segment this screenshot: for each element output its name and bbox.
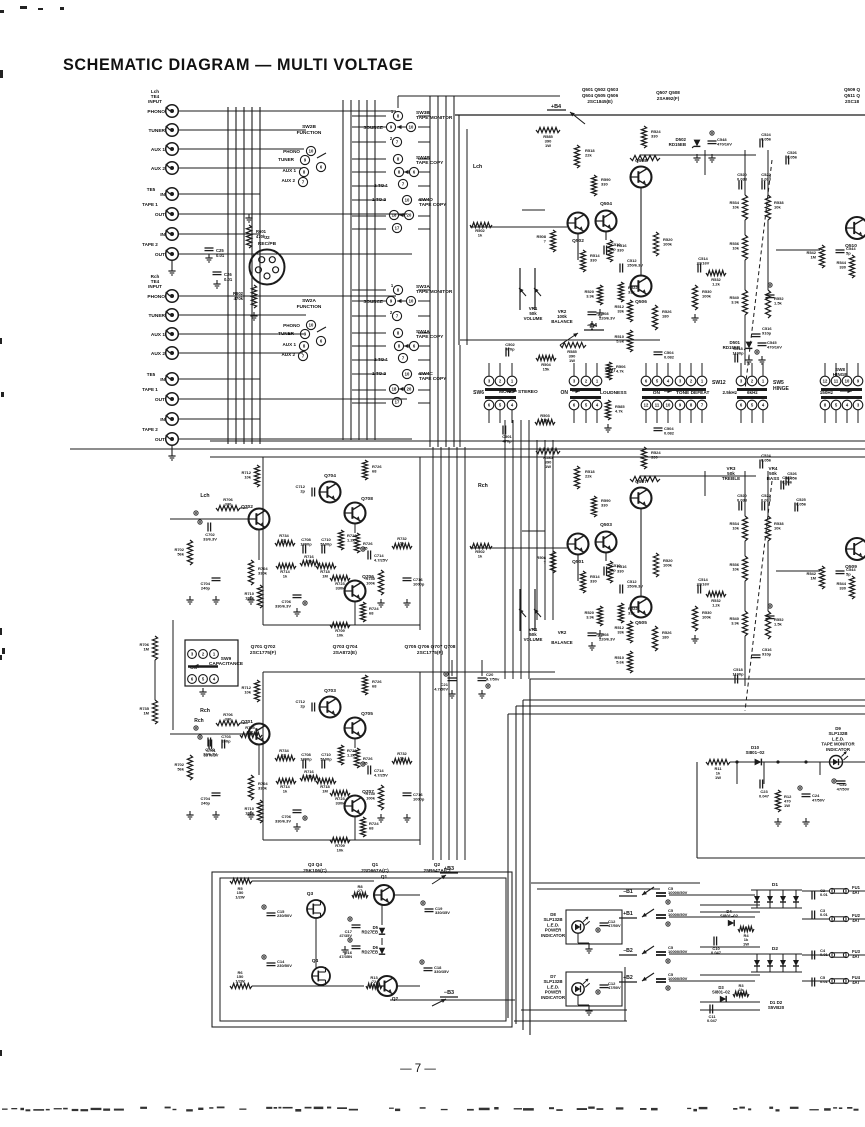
svg-text:1800p: 1800p <box>300 756 312 761</box>
svg-text:5.6k: 5.6k <box>616 659 625 664</box>
svg-text:0.056: 0.056 <box>761 457 772 462</box>
svg-text:Rch: Rch <box>194 718 203 724</box>
svg-text:1k: 1k <box>282 752 287 757</box>
svg-text:TAPE 1: TAPE 1 <box>142 202 158 207</box>
svg-text:TUNER: TUNER <box>278 157 295 162</box>
svg-text:0.047: 0.047 <box>711 950 722 955</box>
svg-text:FUNCTION: FUNCTION <box>297 130 322 136</box>
svg-text:1800p: 1800p <box>300 541 312 546</box>
svg-text:1W: 1W <box>569 358 575 363</box>
svg-text:TUNER: TUNER <box>278 331 295 336</box>
svg-text:330: 330 <box>601 181 608 186</box>
svg-text:TAPE 2: TAPE 2 <box>142 427 158 432</box>
svg-text:AUX 2: AUX 2 <box>151 351 165 357</box>
svg-text:5100p: 5100p <box>320 756 332 761</box>
svg-text:AUX 1: AUX 1 <box>282 168 296 173</box>
svg-text:330: 330 <box>225 501 232 506</box>
svg-text:470k: 470k <box>256 234 266 239</box>
svg-text:15k: 15k <box>542 417 549 422</box>
svg-text:Q701 Q702: Q701 Q702 <box>251 644 276 650</box>
svg-text:IN: IN <box>160 192 165 198</box>
svg-text:22/16V: 22/16V <box>697 581 710 586</box>
svg-text:330: 330 <box>590 257 597 262</box>
svg-text:47/50V: 47/50V <box>608 923 621 928</box>
svg-text:OUT: OUT <box>155 397 165 403</box>
svg-text:10: 10 <box>845 379 850 384</box>
svg-text:TAPE COPY: TAPE COPY <box>419 376 447 382</box>
svg-text:1k: 1k <box>282 537 287 542</box>
svg-text:IN: IN <box>160 377 165 383</box>
svg-text:2SA992(F): 2SA992(F) <box>657 96 680 101</box>
svg-text:4.7k: 4.7k <box>616 368 625 373</box>
svg-text:47/50V: 47/50V <box>608 985 621 990</box>
svg-text:REC/PB: REC/PB <box>258 241 277 247</box>
svg-text:OUT: OUT <box>155 437 165 443</box>
svg-text:2p: 2p <box>300 488 305 493</box>
svg-text:0.033: 0.033 <box>737 497 748 502</box>
svg-text:ON: ON <box>561 390 569 396</box>
svg-text:10k: 10k <box>732 525 739 530</box>
svg-text:1M: 1M <box>810 254 816 259</box>
svg-text:20: 20 <box>407 387 412 392</box>
svg-text:TAPE COPY: TAPE COPY <box>419 202 447 208</box>
svg-text:180: 180 <box>662 313 669 318</box>
svg-text:2.5kHz: 2.5kHz <box>722 390 737 395</box>
svg-text:0.033: 0.033 <box>737 176 748 181</box>
svg-text:240p: 240p <box>201 585 211 590</box>
svg-text:470p: 470p <box>502 438 512 443</box>
svg-text:10k: 10k <box>732 566 739 571</box>
svg-text:PHONO: PHONO <box>147 109 165 115</box>
svg-text:10000/50V: 10000/50V <box>668 912 688 917</box>
svg-text:3.9k: 3.9k <box>586 614 595 619</box>
svg-text:330: 330 <box>601 502 608 507</box>
svg-text:910p: 910p <box>762 330 772 335</box>
svg-text:Q504 Q505 Q506: Q504 Q505 Q506 <box>582 93 619 98</box>
svg-text:VR2: VR2 <box>558 630 567 635</box>
svg-text:1W: 1W <box>743 941 749 946</box>
svg-text:1k: 1k <box>283 573 288 578</box>
svg-text:BALANCE: BALANCE <box>551 640 573 645</box>
svg-text:LOUDNESS: LOUDNESS <box>600 390 627 396</box>
svg-text:10: 10 <box>309 149 314 154</box>
svg-text:INPUT: INPUT <box>148 99 162 104</box>
svg-text:180: 180 <box>662 634 669 639</box>
svg-text:1/2W: 1/2W <box>235 894 245 899</box>
svg-text:230/50V: 230/50V <box>277 913 292 918</box>
svg-text:6kHz: 6kHz <box>747 390 758 395</box>
svg-text:4.7/25V: 4.7/25V <box>374 557 388 562</box>
svg-text:Q501 Q502 Q503: Q501 Q502 Q503 <box>582 87 619 92</box>
svg-text:15k: 15k <box>543 366 550 371</box>
svg-text:Q506: Q506 <box>635 299 647 305</box>
svg-text:1W: 1W <box>784 803 790 808</box>
svg-text:2SC1845(E): 2SC1845(E) <box>587 99 613 104</box>
svg-text:PHONO: PHONO <box>283 149 300 154</box>
svg-text:10k: 10k <box>732 245 739 250</box>
svg-text:OUT: OUT <box>155 212 165 218</box>
svg-text:17: 17 <box>395 226 400 231</box>
svg-text:10k: 10k <box>244 689 251 694</box>
svg-text:11: 11 <box>655 403 660 408</box>
svg-text:−B2: −B2 <box>623 948 633 954</box>
svg-text:1k: 1k <box>478 553 483 558</box>
svg-text:10k: 10k <box>337 847 344 852</box>
svg-text:HINGE: HINGE <box>773 386 790 392</box>
svg-text:330: 330 <box>617 568 624 573</box>
svg-text:5100p: 5100p <box>320 541 332 546</box>
svg-text:1W: 1W <box>545 143 551 148</box>
svg-text:10: 10 <box>405 372 410 377</box>
svg-text:17: 17 <box>395 400 400 405</box>
svg-text:72: 72 <box>372 979 377 984</box>
svg-text:100k: 100k <box>702 614 712 619</box>
svg-text:Rch: Rch <box>478 483 488 489</box>
svg-text:47/35N: 47/35N <box>339 954 352 959</box>
svg-text:Q708: Q708 <box>361 496 373 502</box>
svg-text:10k: 10k <box>337 632 344 637</box>
svg-text:910p: 910p <box>762 651 772 656</box>
svg-text:2p: 2p <box>300 703 305 708</box>
svg-text:INDICATOR: INDICATOR <box>541 995 566 1000</box>
svg-text:1/2W: 1/2W <box>235 978 245 983</box>
svg-text:2SD667A(C): 2SD667A(C) <box>361 868 389 874</box>
svg-text:1.2k: 1.2k <box>712 281 721 286</box>
svg-text:D2: D2 <box>772 946 778 952</box>
svg-text:1k: 1k <box>400 540 405 545</box>
svg-text:IN: IN <box>160 232 165 238</box>
svg-text:AUX 1: AUX 1 <box>282 342 296 347</box>
svg-text:+B3: +B3 <box>444 866 454 872</box>
svg-text:HINGE: HINGE <box>833 372 848 377</box>
svg-text:330: 330 <box>225 716 232 721</box>
svg-text:3.9k: 3.9k <box>586 293 595 298</box>
svg-text:Q509: Q509 <box>845 564 857 570</box>
svg-text:330: 330 <box>590 578 597 583</box>
svg-text:330: 330 <box>651 133 658 138</box>
svg-text:+B4: +B4 <box>551 104 562 110</box>
svg-text:3.9k: 3.9k <box>731 620 740 625</box>
svg-text:— 7 —: — 7 — <box>400 1063 436 1075</box>
svg-text:47k: 47k <box>306 773 313 778</box>
svg-text:100k: 100k <box>663 241 673 246</box>
svg-text:ON: ON <box>653 390 661 396</box>
svg-text:−B4: −B4 <box>587 323 598 329</box>
svg-text:25K106(C): 25K106(C) <box>303 868 327 874</box>
svg-text:PHONO: PHONO <box>283 323 300 328</box>
svg-text:47/50V: 47/50V <box>812 797 825 802</box>
svg-text:47/50V: 47/50V <box>837 786 850 791</box>
svg-text:5p: 5p <box>846 250 851 255</box>
svg-text:1100p: 1100p <box>732 350 744 355</box>
svg-text:SCHEMATIC DIAGRAM — MULTI VOLT: SCHEMATIC DIAGRAM — MULTI VOLTAGE <box>63 56 413 74</box>
svg-text:S5VB20: S5VB20 <box>768 1005 785 1010</box>
svg-text:Lch: Lch <box>200 493 209 499</box>
svg-text:Q1: Q1 <box>381 874 388 880</box>
svg-text:0.047: 0.047 <box>759 793 770 798</box>
svg-text:33/6.3V: 33/6.3V <box>203 536 217 541</box>
svg-text:10: 10 <box>405 198 410 203</box>
svg-text:330: 330 <box>839 585 846 590</box>
svg-text:33k: 33k <box>617 308 624 313</box>
svg-text:TUNER: TUNER <box>148 313 165 319</box>
svg-text:330/35V: 330/35V <box>435 910 450 915</box>
svg-text:100k: 100k <box>366 795 376 800</box>
svg-text:10k: 10k <box>774 525 781 530</box>
svg-text:SI801–02: SI801–02 <box>720 914 739 919</box>
svg-text:D1: D1 <box>772 882 778 888</box>
svg-text:470k: 470k <box>234 296 244 301</box>
svg-text:Q2: Q2 <box>392 996 399 1002</box>
svg-text:1W: 1W <box>545 464 551 469</box>
svg-text:Q505: Q505 <box>635 620 647 626</box>
svg-text:150Hz: 150Hz <box>820 390 834 395</box>
svg-text:10k: 10k <box>244 474 251 479</box>
svg-text:INDICATOR: INDICATOR <box>826 747 851 752</box>
svg-text:33k: 33k <box>617 629 624 634</box>
svg-text:330: 330 <box>617 247 624 252</box>
svg-text:1k: 1k <box>283 788 288 793</box>
svg-text:1000p: 1000p <box>413 581 425 586</box>
svg-text:0.01: 0.01 <box>820 979 829 984</box>
svg-text:1M: 1M <box>322 573 328 578</box>
svg-text:SW6: SW6 <box>473 390 484 396</box>
svg-text:180k: 180k <box>245 810 255 815</box>
svg-text:330: 330 <box>839 264 846 269</box>
svg-text:Q1: Q1 <box>372 862 379 868</box>
svg-text:33 /6.3V: 33 /6.3V <box>204 752 219 757</box>
svg-text:1k: 1k <box>400 755 405 760</box>
svg-text:22/16V: 22/16V <box>697 260 710 265</box>
svg-text:10: 10 <box>309 323 314 328</box>
svg-text:100k: 100k <box>702 293 712 298</box>
svg-text:330/35V: 330/35V <box>434 969 449 974</box>
svg-text:5p: 5p <box>611 567 616 572</box>
svg-text:0.056: 0.056 <box>782 479 793 484</box>
svg-text:SW2A: SW2A <box>302 298 316 304</box>
svg-text:5p: 5p <box>846 571 851 576</box>
svg-text:1M: 1M <box>322 788 328 793</box>
svg-text:100k: 100k <box>663 562 673 567</box>
svg-text:10: 10 <box>409 125 414 130</box>
svg-text:1000p: 1000p <box>413 796 425 801</box>
svg-text:68: 68 <box>372 468 377 473</box>
svg-text:Q705: Q705 <box>361 711 373 717</box>
svg-text:330k: 330k <box>336 800 346 805</box>
svg-text:4.7/50v: 4.7/50v <box>486 676 500 681</box>
svg-text:240p: 240p <box>221 738 231 743</box>
svg-text:Q503: Q503 <box>600 522 612 528</box>
svg-text:AUX 1: AUX 1 <box>151 147 165 153</box>
svg-text:10: 10 <box>409 299 414 304</box>
svg-text:240p: 240p <box>201 800 211 805</box>
svg-text:12: 12 <box>823 379 828 384</box>
svg-text:Q509 Q: Q509 Q <box>844 87 861 92</box>
svg-text:TUNER: TUNER <box>148 128 165 134</box>
svg-text:22k: 22k <box>585 152 592 157</box>
svg-text:Q511 Q: Q511 Q <box>844 93 860 98</box>
svg-text:10k: 10k <box>732 204 739 209</box>
svg-text:Q703 Q704: Q703 Q704 <box>333 644 358 650</box>
svg-text:AUX 2: AUX 2 <box>281 178 295 183</box>
svg-text:56k: 56k <box>177 766 184 771</box>
svg-text:0.01: 0.01 <box>216 253 225 258</box>
svg-text:SI801–02: SI801–02 <box>746 750 765 755</box>
svg-text:10000/50V: 10000/50V <box>668 976 688 981</box>
svg-text:22k: 22k <box>585 473 592 478</box>
svg-text:20: 20 <box>407 213 412 218</box>
svg-text:330k: 330k <box>336 585 346 590</box>
svg-text:CAPACITANCE: CAPACITANCE <box>209 661 244 667</box>
svg-text:1W: 1W <box>738 991 744 996</box>
svg-text:11: 11 <box>834 379 839 384</box>
svg-text:TREBLE: TREBLE <box>722 476 740 481</box>
svg-text:100k: 100k <box>366 580 376 585</box>
svg-text:15: 15 <box>363 545 368 550</box>
svg-text:FUNCTION: FUNCTION <box>297 304 322 310</box>
svg-text:Lch: Lch <box>473 164 482 170</box>
svg-text:Q705 Q706 Q707 Q708: Q705 Q706 Q707 Q708 <box>405 644 456 650</box>
svg-text:SW12: SW12 <box>712 380 726 386</box>
svg-text:0.082: 0.082 <box>664 354 675 359</box>
svg-text:12: 12 <box>644 403 649 408</box>
svg-text:470/16V: 470/16V <box>717 141 732 146</box>
svg-text:220/6.3V: 220/6.3V <box>599 315 615 320</box>
svg-text:0.01: 0.01 <box>820 892 829 897</box>
svg-text:2SC1775(F): 2SC1775(F) <box>250 650 277 656</box>
svg-text:33k: 33k <box>628 610 635 615</box>
svg-text:Q703: Q703 <box>324 688 336 694</box>
svg-text:Q3 Q4: Q3 Q4 <box>308 862 322 868</box>
svg-text:47k: 47k <box>306 558 313 563</box>
svg-text:Q504: Q504 <box>600 201 612 207</box>
svg-text:RD27EB: RD27EB <box>361 950 378 955</box>
svg-text:VOLUME: VOLUME <box>524 316 543 321</box>
svg-text:230/50V: 230/50V <box>277 963 292 968</box>
svg-text:27: 27 <box>358 888 363 893</box>
svg-text:AUX 2: AUX 2 <box>151 166 165 172</box>
svg-text:220/6.3V: 220/6.3V <box>599 636 615 641</box>
svg-text:1.5k: 1.5k <box>774 621 783 626</box>
svg-text:68: 68 <box>372 683 377 688</box>
svg-text:AUX 2: AUX 2 <box>281 352 295 357</box>
svg-text:BASS: BASS <box>767 476 780 481</box>
svg-text:10000/50V: 10000/50V <box>668 890 688 895</box>
svg-text:Rch: Rch <box>200 708 210 714</box>
svg-text:4.7k: 4.7k <box>615 408 624 413</box>
svg-text:10: 10 <box>666 403 671 408</box>
svg-text:470/16V: 470/16V <box>767 344 782 349</box>
svg-text:330: 330 <box>247 729 254 734</box>
svg-text:SW2B: SW2B <box>302 124 316 130</box>
svg-text:0.056: 0.056 <box>796 501 807 506</box>
svg-text:RD15EB: RD15EB <box>669 142 686 147</box>
svg-text:1.2k: 1.2k <box>712 602 721 607</box>
svg-text:0.01: 0.01 <box>820 912 829 917</box>
svg-text:330/6.3V: 330/6.3V <box>275 603 291 608</box>
svg-text:5p: 5p <box>611 246 616 251</box>
svg-text:10k: 10k <box>774 204 781 209</box>
svg-text:−B3: −B3 <box>444 990 454 996</box>
svg-text:0.01: 0.01 <box>224 277 233 282</box>
svg-text:Q510: Q510 <box>845 243 857 249</box>
svg-text:10000/50V: 10000/50V <box>668 949 688 954</box>
svg-text:68: 68 <box>369 610 374 615</box>
svg-text:18: 18 <box>392 387 397 392</box>
svg-text:+B1: +B1 <box>623 911 633 917</box>
svg-text:+B2: +B2 <box>623 975 633 981</box>
svg-text:Q702: Q702 <box>241 504 253 510</box>
svg-text:0.082: 0.082 <box>664 430 675 435</box>
svg-text:5.6k: 5.6k <box>616 338 625 343</box>
svg-text:VOLUME: VOLUME <box>524 637 543 642</box>
svg-text:TAPE 1: TAPE 1 <box>142 387 158 392</box>
svg-text:Q507 Q508: Q507 Q508 <box>656 90 680 95</box>
svg-text:1.5k: 1.5k <box>774 300 783 305</box>
svg-text:Q4: Q4 <box>312 958 319 964</box>
svg-text:4.7/25V: 4.7/25V <box>374 772 388 777</box>
svg-text:TONE DEFEAT: TONE DEFEAT <box>676 390 709 396</box>
svg-text:15: 15 <box>363 760 368 765</box>
svg-text:BALANCE: BALANCE <box>551 319 573 324</box>
svg-text:18: 18 <box>392 213 397 218</box>
svg-text:PHONO: PHONO <box>147 294 165 300</box>
svg-text:RD27EB: RD27EB <box>361 930 378 935</box>
svg-text:INPUT: INPUT <box>148 284 162 289</box>
svg-text:MONO: MONO <box>499 389 514 395</box>
svg-text:33k: 33k <box>628 289 635 294</box>
svg-text:1k: 1k <box>478 232 483 237</box>
svg-text:1100p: 1100p <box>732 671 744 676</box>
svg-text:−B1: −B1 <box>623 889 633 895</box>
svg-text:3.9k: 3.9k <box>731 299 740 304</box>
svg-text:470p: 470p <box>505 346 515 351</box>
svg-text:330/6.3V: 330/6.3V <box>275 818 291 823</box>
svg-text:0.047: 0.047 <box>707 1018 718 1023</box>
svg-text:1M: 1M <box>143 710 149 715</box>
svg-text:SI801–02: SI801–02 <box>712 990 731 995</box>
svg-text:OUT: OUT <box>155 252 165 258</box>
svg-text:INDICATOR: INDICATOR <box>541 933 566 938</box>
svg-text:Q3: Q3 <box>307 891 314 897</box>
svg-text:56k: 56k <box>177 551 184 556</box>
svg-text:Q2: Q2 <box>434 862 441 868</box>
svg-text:0.056: 0.056 <box>761 136 772 141</box>
svg-text:0.056: 0.056 <box>787 154 798 159</box>
svg-text:2SC18: 2SC18 <box>845 99 859 104</box>
svg-text:Q704: Q704 <box>324 473 336 479</box>
svg-text:AUX 1: AUX 1 <box>151 332 165 338</box>
svg-text:2SC1775(F): 2SC1775(F) <box>417 650 444 656</box>
svg-text:1M: 1M <box>810 575 816 580</box>
svg-text:68: 68 <box>369 825 374 830</box>
svg-text:1M: 1M <box>143 646 149 651</box>
svg-text:STEREO: STEREO <box>518 389 538 395</box>
svg-text:IN: IN <box>160 417 165 423</box>
svg-text:1W: 1W <box>715 775 721 780</box>
svg-text:180k: 180k <box>245 595 255 600</box>
svg-text:TE5: TE5 <box>147 372 156 377</box>
svg-text:TE5: TE5 <box>147 187 156 192</box>
svg-text:2SA872(E): 2SA872(E) <box>333 650 357 656</box>
svg-text:TAPE 2: TAPE 2 <box>142 242 158 247</box>
